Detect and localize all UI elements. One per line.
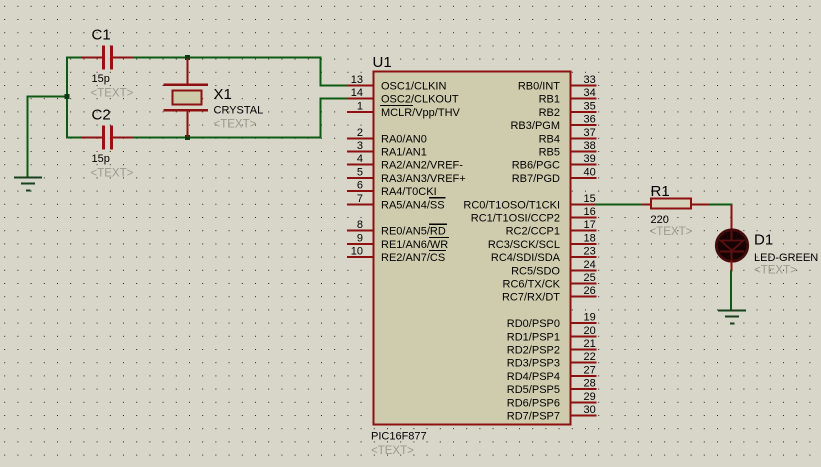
svg-text:RD7/PSP7: RD7/PSP7 — [507, 411, 560, 423]
svg-text:39: 39 — [584, 153, 596, 165]
svg-text:7: 7 — [357, 193, 363, 205]
pin 39 stub (right) — [570, 164, 597, 166]
svg-text:<TEXT>: <TEXT> — [91, 168, 134, 180]
svg-text:29: 29 — [584, 391, 596, 403]
svg-text:RB3/PGM: RB3/PGM — [510, 120, 560, 132]
pin 34 stub (right) — [570, 98, 597, 100]
pin 21 stub (right) — [570, 349, 597, 351]
svg-text:RB5: RB5 — [539, 147, 560, 159]
pin 8 stub (left) — [347, 230, 374, 232]
svg-text:9: 9 — [357, 232, 363, 244]
svg-text:X1: X1 — [214, 86, 232, 103]
svg-text:RA4/T0CKI: RA4/T0CKI — [381, 186, 437, 198]
wire: ground branch vertical — [27, 96, 29, 178]
pin 37 stub (right) — [570, 137, 597, 139]
svg-text:U1: U1 — [373, 54, 392, 71]
svg-text:RC2/CCP1: RC2/CCP1 — [506, 226, 560, 238]
overbar over SS — [429, 197, 446, 199]
svg-text:3: 3 — [357, 140, 363, 152]
pin 2 stub (left) — [347, 137, 374, 139]
svg-text:RC0/T1OSO/T1CKI: RC0/T1OSO/T1CKI — [463, 199, 560, 211]
svg-text:<TEXT>: <TEXT> — [371, 445, 414, 457]
svg-text:34: 34 — [584, 87, 596, 99]
svg-text:10: 10 — [351, 246, 363, 258]
svg-text:36: 36 — [584, 114, 596, 126]
svg-text:RD6/PSP6: RD6/PSP6 — [507, 397, 560, 409]
svg-text:C1: C1 — [92, 27, 111, 44]
svg-text:4: 4 — [357, 153, 363, 165]
svg-text:30: 30 — [584, 404, 596, 416]
svg-text:CRYSTAL: CRYSTAL — [214, 105, 264, 117]
svg-text:RE0/AN5/RD: RE0/AN5/RD — [381, 226, 446, 238]
wire: row A bus to C1 left — [66, 57, 82, 59]
pin 10 stub (left) — [347, 256, 374, 258]
resistor R1 — [642, 199, 709, 209]
svg-text:40: 40 — [584, 166, 596, 178]
svg-text:18: 18 — [584, 232, 596, 244]
svg-text:15p: 15p — [92, 73, 110, 85]
svg-text:RC4/SDI/SDA: RC4/SDI/SDA — [491, 252, 561, 264]
svg-text:RB2: RB2 — [539, 107, 560, 119]
node: junction bus/ground — [65, 94, 70, 99]
pin 19 stub (right) — [570, 322, 597, 324]
svg-text:RE1/AN6/WR: RE1/AN6/WR — [381, 239, 448, 251]
pin 36 stub (right) — [570, 124, 597, 126]
overbar over WR — [429, 236, 449, 238]
svg-text:RD5/PSP5: RD5/PSP5 — [507, 384, 560, 396]
svg-text:27: 27 — [584, 364, 596, 376]
svg-text:26: 26 — [584, 285, 596, 297]
svg-text:<TEXT>: <TEXT> — [650, 226, 693, 238]
svg-text:16: 16 — [584, 206, 596, 218]
svg-text:<TEXT>: <TEXT> — [91, 88, 134, 100]
svg-text:38: 38 — [584, 140, 596, 152]
svg-text:17: 17 — [584, 219, 596, 231]
svg-text:2: 2 — [357, 127, 363, 139]
pin 35 stub (right) — [570, 111, 597, 113]
pin 6 stub (left) — [347, 190, 374, 192]
capacitor C2 — [81, 126, 133, 150]
svg-text:LED-GREEN: LED-GREEN — [754, 252, 818, 264]
overbar over RD — [429, 223, 447, 225]
svg-text:MCLR/Vpp/THV: MCLR/Vpp/THV — [381, 107, 461, 119]
svg-text:28: 28 — [584, 378, 596, 390]
svg-text:6: 6 — [357, 180, 363, 192]
pin 33 stub (right) — [570, 85, 597, 87]
svg-text:PIC16F877: PIC16F877 — [371, 431, 427, 443]
svg-text:8: 8 — [357, 219, 363, 231]
wire: pin 15 to R1 — [596, 203, 643, 205]
crystal X1 — [164, 58, 209, 137]
pin 40 stub (right) — [570, 177, 597, 179]
svg-text:22: 22 — [584, 351, 596, 363]
svg-text:13: 13 — [351, 74, 363, 86]
pin 17 stub (right) — [570, 230, 597, 232]
wire: row B C2 right to corner — [132, 137, 322, 139]
wire: LED cathode to ground — [730, 271, 732, 312]
wire: corner down to pin 13 row — [320, 58, 322, 87]
svg-text:RA0/AN0: RA0/AN0 — [381, 133, 427, 145]
pin 4 stub (left) — [347, 164, 374, 166]
wire: R1 to LED corner — [709, 203, 733, 205]
svg-text:OSC1/CLKIN: OSC1/CLKIN — [381, 81, 446, 93]
svg-text:RC6/TX/CK: RC6/TX/CK — [503, 279, 561, 291]
svg-text:5: 5 — [357, 166, 363, 178]
svg-text:RD3/PSP3: RD3/PSP3 — [507, 358, 560, 370]
svg-text:RD0/PSP0: RD0/PSP0 — [507, 318, 560, 330]
svg-text:RD1/PSP1: RD1/PSP1 — [507, 331, 560, 343]
pin 14 stub (left) — [347, 98, 374, 100]
svg-text:RC7/RX/DT: RC7/RX/DT — [502, 292, 560, 304]
svg-text:D1: D1 — [754, 232, 773, 249]
overbar over CS — [429, 250, 446, 252]
pin 26 stub (right) — [570, 296, 597, 298]
pin 25 stub (right) — [570, 283, 597, 285]
pin 13 stub (left) — [347, 85, 374, 87]
pin 28 stub (right) — [570, 388, 597, 390]
overbar over MCLR — [380, 104, 413, 106]
pin 15 stub (right) — [570, 203, 597, 205]
svg-text:RC3/SCK/SCL: RC3/SCK/SCL — [488, 239, 560, 251]
svg-text:RB7/PGD: RB7/PGD — [512, 173, 560, 185]
svg-text:25: 25 — [584, 272, 596, 284]
svg-text:33: 33 — [584, 74, 596, 86]
pin 16 stub (right) — [570, 217, 597, 219]
pin 30 stub (right) — [570, 415, 597, 417]
svg-text:14: 14 — [351, 87, 363, 99]
pin 3 stub (left) — [347, 151, 374, 153]
svg-text:<TEXT>: <TEXT> — [214, 119, 257, 131]
pin 5 stub (left) — [347, 177, 374, 179]
svg-text:OSC2/CLKOUT: OSC2/CLKOUT — [381, 94, 459, 106]
wire: left bus vertical (OSC net) — [66, 57, 68, 139]
wire: corner down to LED anode — [731, 204, 733, 206]
pin 9 stub (left) — [347, 243, 374, 245]
svg-text:RA2/AN2/VREF-: RA2/AN2/VREF- — [381, 160, 463, 172]
svg-text:15: 15 — [584, 193, 596, 205]
svg-text:RA3/AN3/VREF+: RA3/AN3/VREF+ — [381, 173, 466, 185]
pin 1 stub (left) — [347, 111, 374, 113]
svg-text:RC1/T1OSI/CCP2: RC1/T1OSI/CCP2 — [471, 213, 560, 225]
wire: corner up to pin 14 row — [320, 98, 322, 138]
pin 38 stub (right) — [570, 151, 597, 153]
svg-text:20: 20 — [584, 325, 596, 337]
svg-text:RB0/INT: RB0/INT — [518, 81, 560, 93]
svg-text:RB6/PGC: RB6/PGC — [512, 160, 560, 172]
node: junction crystal bottom (row B) — [185, 135, 190, 140]
svg-text:RB4: RB4 — [539, 133, 560, 145]
op-amp U1 body (PIC16F877 IC) — [374, 72, 571, 425]
svg-text:RD4/PSP4: RD4/PSP4 — [507, 371, 560, 383]
ground (left) — [14, 178, 42, 191]
svg-text:RD2/PSP2: RD2/PSP2 — [507, 345, 560, 357]
svg-text:RC5/SDO: RC5/SDO — [511, 265, 560, 277]
svg-text:37: 37 — [584, 127, 596, 139]
wire: row A C1 right to corner — [132, 57, 322, 59]
node: junction crystal top (row A) — [185, 55, 190, 60]
pin 27 stub (right) — [570, 375, 597, 377]
pin 22 stub (right) — [570, 362, 597, 364]
wire: ground branch horizontal — [27, 96, 69, 98]
pin 7 stub (left) — [347, 203, 374, 205]
svg-text:23: 23 — [584, 246, 596, 258]
pin 29 stub (right) — [570, 401, 597, 403]
svg-text:RE2/AN7/CS: RE2/AN7/CS — [381, 252, 445, 264]
pin 20 stub (right) — [570, 335, 597, 337]
pin 18 stub (right) — [570, 243, 597, 245]
svg-text:35: 35 — [584, 100, 596, 112]
svg-text:RA1/AN1: RA1/AN1 — [381, 147, 427, 159]
pin 23 stub (right) — [570, 256, 597, 258]
svg-text:RB1: RB1 — [539, 94, 560, 106]
svg-text:19: 19 — [584, 312, 596, 324]
svg-text:24: 24 — [584, 259, 596, 271]
wire: into pin 13 (OSC1) — [320, 85, 349, 87]
svg-text:C2: C2 — [92, 107, 111, 124]
svg-text:R1: R1 — [651, 183, 670, 200]
wire: into pin 14 (OSC2) — [320, 98, 349, 100]
svg-text:21: 21 — [584, 338, 596, 350]
svg-text:220: 220 — [651, 214, 669, 226]
ground (right) — [718, 311, 746, 324]
svg-text:<TEXT>: <TEXT> — [754, 265, 797, 277]
pin 24 stub (right) — [570, 269, 597, 271]
wire: row B bus to C2 left — [66, 137, 82, 139]
diode D1 (LED-GREEN) — [716, 205, 747, 272]
svg-text:RA5/AN4/SS: RA5/AN4/SS — [381, 199, 445, 211]
capacitor C1 — [81, 46, 133, 70]
svg-text:1: 1 — [357, 100, 363, 112]
svg-text:15p: 15p — [92, 153, 110, 165]
